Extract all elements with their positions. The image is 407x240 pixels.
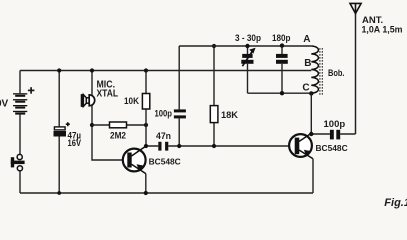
svg-text:BC548C: BC548C — [316, 143, 348, 153]
node dot A-rail/18K — [212, 44, 216, 48]
svg-text:B: B — [304, 58, 311, 69]
wire collector node to 100p right — [311, 133, 355, 135]
resistor R2 2M2 — [110, 122, 127, 128]
node dot mic/2M2 — [90, 123, 94, 127]
svg-text:2M2: 2M2 — [110, 130, 126, 141]
svg-text:47n: 47n — [156, 131, 171, 142]
trimmer capacitor C4 3-30p — [241, 46, 255, 93]
node dot C-rail/coil — [309, 91, 313, 95]
resistor R1 10K — [142, 94, 149, 110]
svg-text:100p: 100p — [155, 109, 173, 120]
wire bottom ground rail — [20, 192, 313, 194]
node dot 18K/base row — [212, 144, 216, 148]
wire 18K column — [213, 46, 215, 146]
wire 47u column bottom — [58, 137, 60, 194]
microphone MIC1 crystal — [81, 94, 95, 107]
capacitor C1 47u 16V electrolytic — [54, 122, 70, 136]
node dot rail/10K — [144, 68, 148, 72]
wire switch to bottom rail — [19, 171, 21, 193]
node dot 100p/base row — [177, 144, 181, 148]
coil core dashed — [320, 48, 322, 96]
resistor R3 18K — [210, 106, 218, 123]
wire battery to switch — [19, 115, 21, 155]
node dot A-rail/180p — [280, 43, 284, 47]
wire T2 emitter to ground — [312, 159, 314, 193]
wire 2M2 row — [92, 124, 146, 126]
wire A rail — [179, 45, 311, 47]
svg-text:16V: 16V — [68, 138, 82, 149]
capacitor C3 100p — [174, 109, 186, 118]
capacitor C5 180p — [276, 46, 288, 93]
svg-text:1,0A 1,5m: 1,0A 1,5m — [362, 25, 403, 36]
wire 100p left column — [178, 46, 180, 146]
node dot collector/coil/100p — [309, 132, 313, 136]
svg-text:XTAL: XTAL — [97, 88, 119, 99]
wire base node row with 47n gap — [146, 145, 291, 147]
battery plus sign — [28, 87, 35, 94]
wire mic column — [92, 71, 124, 161]
svg-text:180p: 180p — [272, 33, 291, 44]
wire T1 emitter to ground — [145, 174, 147, 193]
wire battery top — [19, 71, 21, 94]
svg-text:Fig.1: Fig.1 — [384, 197, 407, 209]
wire B+ rail — [20, 70, 311, 72]
svg-text:18K: 18K — [221, 110, 238, 121]
inductor L1 coil Bob. — [311, 46, 318, 93]
transistor T2 BC548C right — [289, 133, 313, 159]
wire 10K collector column — [145, 71, 147, 147]
capacitor C2 47n — [158, 142, 168, 151]
node dot bottom rail 47u — [57, 191, 61, 195]
wire 47u column top — [58, 71, 60, 128]
svg-text:C: C — [302, 83, 309, 94]
svg-text:BC548C: BC548C — [149, 157, 181, 167]
svg-text:100p: 100p — [324, 119, 346, 130]
capacitor C6 100p right — [330, 130, 340, 140]
wire coil bottom to collector node — [310, 93, 312, 134]
switch S1 push-button — [11, 154, 25, 171]
battery B1 9V — [13, 93, 27, 114]
wire antenna vertical — [355, 14, 357, 135]
node dot 2M2/collector column — [144, 123, 148, 127]
node dot collector/47n — [144, 144, 148, 148]
svg-text:A: A — [303, 34, 310, 45]
svg-text:Bob.: Bob. — [328, 68, 345, 79]
node dot A-rail/3-30p — [245, 44, 249, 48]
node dot rail/47u — [57, 68, 61, 72]
svg-text:10K: 10K — [124, 96, 139, 107]
svg-text:9V: 9V — [0, 98, 9, 109]
wire C rail — [248, 92, 312, 94]
svg-text:3 - 30p: 3 - 30p — [235, 33, 261, 44]
antenna symbol — [350, 3, 361, 13]
node dot C-rail/180p — [280, 91, 284, 95]
node dot T1 emitter ground — [144, 191, 148, 195]
transistor T1 BC548C left — [123, 146, 146, 174]
node dot rail/mic — [90, 68, 94, 72]
